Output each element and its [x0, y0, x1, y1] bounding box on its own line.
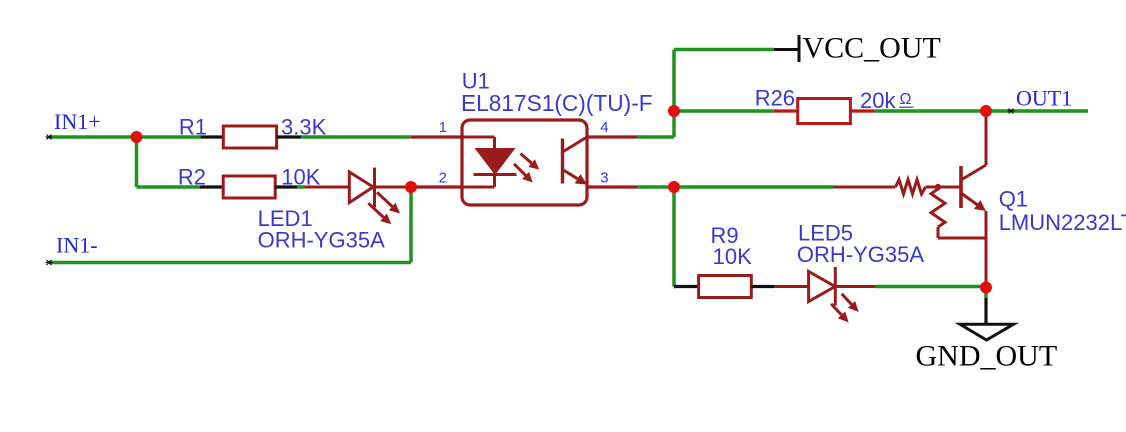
svg-text:3: 3 — [600, 170, 608, 187]
svg-text:2: 2 — [439, 170, 447, 187]
svg-text:IN1-: IN1- — [56, 233, 98, 258]
node junction R26 row / vertical — [668, 105, 680, 117]
diode LED5 — [775, 267, 875, 323]
designator LED5 — [798, 221, 853, 246]
resistor Q1 base-emitter (vertical zigzag) — [931, 188, 986, 238]
wire OUT1 — [986, 109, 1088, 113]
designator R1 — [179, 114, 207, 139]
net label IN1+ — [54, 109, 101, 134]
designator U1 — [462, 69, 490, 94]
svg-text:GND_OUT: GND_OUT — [916, 340, 1058, 373]
wire LED5 to GND node — [875, 285, 986, 289]
port marker OUT1 — [1008, 109, 1015, 114]
svg-text:EL817S1(C)(TU)-F: EL817S1(C)(TU)-F — [461, 90, 653, 116]
svg-text:Q1: Q1 — [999, 187, 1028, 212]
op-amp U1 pin 3 stub — [587, 185, 637, 188]
wire R1 to U1 pin1 — [301, 135, 411, 139]
pin number 3 — [600, 170, 608, 187]
port marker IN1+ — [46, 135, 53, 140]
resistor R1 — [201, 126, 301, 148]
pin number 1 — [439, 119, 447, 136]
svg-text:4: 4 — [600, 119, 608, 136]
power net label VCC_OUT — [803, 32, 941, 65]
wire pin4 to vertical — [637, 135, 674, 139]
svg-text:OUT1: OUT1 — [1016, 86, 1072, 111]
wire R9 row from corner — [674, 285, 676, 289]
svg-text:LMUN2232LT1: LMUN2232LT1 — [999, 210, 1126, 235]
pin number 2 — [439, 170, 447, 187]
wire row2 from vertical to R2 — [137, 185, 200, 189]
svg-text:R26: R26 — [755, 86, 795, 111]
transistor Q1 — [961, 111, 986, 288]
designator R26 — [755, 86, 795, 111]
wire pin3 to node — [637, 185, 674, 189]
svg-text:10K: 10K — [713, 244, 752, 269]
op-amp U1 pin 1 stub — [411, 135, 462, 138]
wire R2 to LED1 — [297, 185, 304, 189]
svg-text:1: 1 — [439, 119, 447, 136]
wire R26 row left — [674, 109, 774, 113]
svg-text:ORH-YG35A: ORH-YG35A — [797, 242, 924, 267]
op-amp U1 pin 2 stub — [411, 185, 462, 188]
power rail stub VCC_OUT (black) — [774, 35, 799, 62]
wire IN1+ horizontal — [49, 135, 201, 139]
designator R2 — [178, 165, 206, 190]
svg-text:R2: R2 — [178, 165, 206, 190]
value 10K — [281, 165, 320, 190]
wire LED1 node down to IN1- row — [409, 187, 413, 263]
wire below node (green bit) — [984, 288, 988, 299]
value 3.3K — [281, 114, 327, 139]
resistor R9 — [674, 276, 775, 298]
resistor R26 — [774, 99, 875, 124]
transistor Q1 base lead + internal resistor — [833, 180, 961, 195]
power net label GND_OUT — [916, 340, 1058, 373]
wire vertical x674 up to VCC row — [672, 50, 676, 138]
svg-text:VCC_OUT: VCC_OUT — [803, 32, 941, 65]
value 20k Ohm — [860, 88, 914, 113]
wire R26 to OUT1 node — [875, 109, 986, 113]
resistor R2 — [200, 176, 297, 198]
wire IN1- horizontal — [49, 261, 411, 265]
wire vertical from IN1+ node down to row2 — [135, 137, 139, 187]
diode LED1 — [305, 168, 405, 225]
LED inside U1 — [462, 137, 517, 187]
pin number 4 — [600, 119, 608, 136]
svg-text:Ω: Ω — [900, 91, 912, 108]
designator Q1 — [999, 187, 1028, 212]
value EL817S1(C)(TU)-F — [461, 90, 653, 116]
svg-text:IN1+: IN1+ — [54, 109, 101, 134]
designator R9 — [711, 223, 739, 248]
node junction OUT1 — [980, 105, 992, 117]
node Q1 base divider junction — [935, 184, 941, 190]
optocoupler U1 body — [462, 120, 587, 205]
ground GND_OUT — [960, 298, 1014, 340]
node junction LED1 cathode — [405, 181, 417, 193]
wire vertical x674 down to R9 row — [672, 187, 676, 287]
node junction pin3 row — [668, 181, 680, 193]
phototransistor inside U1 — [563, 137, 588, 185]
svg-text:R1: R1 — [179, 114, 207, 139]
node junction at IN1+ — [131, 131, 143, 143]
value 10K (R9) — [713, 244, 752, 269]
node junction emitter/GND — [980, 282, 992, 294]
light arrows inside U1 — [514, 154, 539, 183]
net label IN1- — [56, 233, 98, 258]
net label OUT1 — [1016, 86, 1072, 111]
value ORH-YG35A (LED1) — [258, 228, 385, 253]
svg-text:ORH-YG35A: ORH-YG35A — [258, 228, 385, 253]
wire VCC row horizontal — [674, 48, 774, 52]
value ORH-YG35A (LED5) — [797, 242, 924, 267]
value LMUN2232LT1 — [999, 210, 1126, 235]
op-amp U1 pin 4 stub — [587, 135, 637, 138]
wire pin3 row right (green) — [674, 185, 833, 189]
port marker IN1- — [46, 260, 53, 265]
designator LED1 — [258, 206, 313, 231]
